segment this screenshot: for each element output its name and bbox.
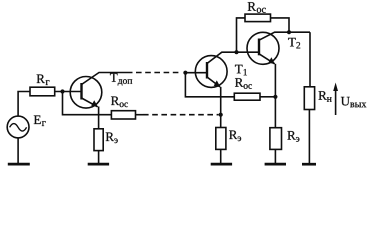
wire base node down to Rос1 xyxy=(63,92,112,115)
wire T2 base node up to Rос3 xyxy=(237,18,246,52)
arrow Uвых xyxy=(335,90,337,116)
wire Rэ1 to ground xyxy=(98,151,100,164)
label Rг xyxy=(37,75,50,86)
dashed wire Тдоп collector to T1 base xyxy=(136,72,182,74)
wire Тдоп emitter down to Rэ1 xyxy=(98,107,100,129)
wire T2 emitter down to Rэ3 xyxy=(274,64,276,128)
node at T2 collector xyxy=(287,30,291,34)
transistor T2 circle xyxy=(247,32,279,64)
sine wave inside source xyxy=(10,124,27,132)
node at base of Тдоп xyxy=(60,89,64,93)
label T2 xyxy=(288,38,300,49)
resistor Rос2 xyxy=(234,93,260,100)
label Rэ3 xyxy=(287,131,299,142)
wire Rг to base of Тдоп xyxy=(55,91,82,93)
transistor Тдоп circle xyxy=(70,77,102,109)
resistor Rг xyxy=(30,87,55,96)
transistor T1 circle xyxy=(195,56,227,88)
Тдоп emitter with arrow xyxy=(82,98,98,107)
T2 emitter with arrow xyxy=(259,54,275,64)
wire Rос2 right to T2 emitter xyxy=(260,96,275,98)
AC source Eг circle xyxy=(7,116,29,138)
label Тдоп xyxy=(110,73,132,85)
T2 collector xyxy=(259,32,310,40)
T1 collector xyxy=(207,52,259,63)
label Rос1 xyxy=(111,97,128,108)
label Rн xyxy=(319,91,332,102)
dashed feedback wire to T1 emitter xyxy=(143,114,219,116)
wire output node down to Rн xyxy=(309,32,311,87)
T1 base bar xyxy=(206,62,208,79)
resistor Rэ1 xyxy=(94,129,103,151)
Тдоп collector xyxy=(82,73,133,85)
T1 emitter with arrow xyxy=(207,77,220,87)
wire Rэ3 to ground xyxy=(274,149,276,163)
label Uвых xyxy=(341,97,366,107)
Rос1 right stub xyxy=(136,114,144,116)
T1 base wire xyxy=(185,72,207,74)
T2 base bar xyxy=(258,39,260,56)
resistor Rос1 xyxy=(111,111,135,119)
resistor Rэ3 xyxy=(270,128,282,150)
resistor Rн xyxy=(304,87,314,110)
wire T1 emitter down to Rэ2 xyxy=(220,87,222,128)
ground under Rэ1 xyxy=(88,163,109,166)
label Ег xyxy=(34,116,46,127)
resistor Rос3 top xyxy=(245,14,271,22)
wire Rэ2 to ground xyxy=(220,149,222,163)
wire Rос3 right down to output node xyxy=(271,18,290,32)
label Rэ2 xyxy=(229,131,241,142)
label T1 xyxy=(235,65,247,76)
ground under Rэ3 xyxy=(265,163,286,166)
ground under Rэ2 xyxy=(211,163,232,166)
source Eг wires xyxy=(18,92,30,117)
wire T1 base node down and right to Rос2 xyxy=(185,73,234,97)
ground under Rн xyxy=(302,163,316,166)
label Rэ1 xyxy=(106,133,118,144)
resistor Rэ2 xyxy=(216,128,226,150)
node on T2 emitter line xyxy=(273,95,277,99)
wire Rн to ground xyxy=(308,110,310,164)
Тдоп base bar xyxy=(80,83,82,100)
node at T2 base xyxy=(234,50,238,54)
node at T1 base xyxy=(183,71,187,75)
label Rос3 xyxy=(248,2,266,13)
label Rос2 xyxy=(235,78,252,89)
node on T1 emitter line xyxy=(219,113,223,117)
ground under Eг xyxy=(8,163,30,166)
